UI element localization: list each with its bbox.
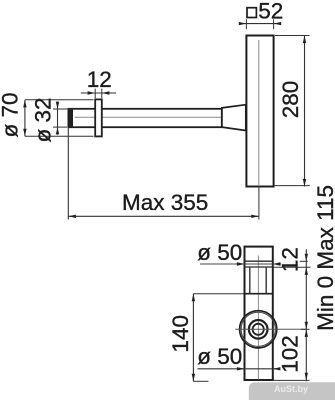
vertical trap tube (ø50) [245, 247, 273, 380]
watermark bar [249, 382, 335, 400]
dimension Max 355 [68, 127, 259, 219]
svg-text:ø 70: ø 70 [0, 92, 23, 137]
svg-text:AuSt.by: AuSt.by [274, 384, 308, 394]
rosette horizontal center line [235, 328, 306, 330]
label square symbol for 52 [247, 8, 256, 18]
dimension ø70 (flange) [23, 100, 93, 137]
svg-text:52: 52 [258, 0, 283, 23]
thread bottom seam [245, 293, 273, 295]
body inner highlight line [258, 40, 260, 185]
tube center line [257, 256, 259, 380]
svg-text:12: 12 [277, 247, 302, 272]
dimension 140 [192, 294, 244, 382]
svg-text:ø 50: ø 50 [197, 344, 242, 369]
dimension 12 (flange thickness) [81, 89, 116, 99]
horizontal tube (ø32) [68, 109, 221, 127]
svg-text:140: 140 [168, 315, 193, 353]
shared right dimension line (12 / Min 0 Max 115 / 102) [273, 249, 310, 381]
dimension ø32 (tube) [53, 102, 72, 135]
trap rosette circles [240, 311, 277, 348]
thread lines [250, 268, 266, 294]
dimension 280: vertical line right of body [274, 36, 310, 187]
dimension ø50 lower: leader with arrows [198, 367, 281, 370]
dimension 52: line, arrows, extension ticks [239, 19, 281, 29]
svg-text:12: 12 [87, 67, 112, 92]
wall flange (ø70) [95, 99, 102, 136]
svg-text:ø 50: ø 50 [197, 240, 242, 265]
cone connector between horizontal tube and body [222, 105, 246, 131]
svg-text:ø 32: ø 32 [30, 97, 55, 142]
vertical body tube (square 52 body) [246, 36, 273, 187]
svg-text:280: 280 [278, 81, 303, 119]
tube end cap (dark) [68, 108, 73, 127]
dimension ø50 upper: leader with arrows [200, 262, 281, 265]
collar ring seams [245, 260, 273, 262]
svg-text:Max 355: Max 355 [122, 190, 208, 215]
svg-text:102: 102 [277, 335, 302, 373]
svg-text:Min 0 Max 115: Min 0 Max 115 [313, 185, 335, 331]
